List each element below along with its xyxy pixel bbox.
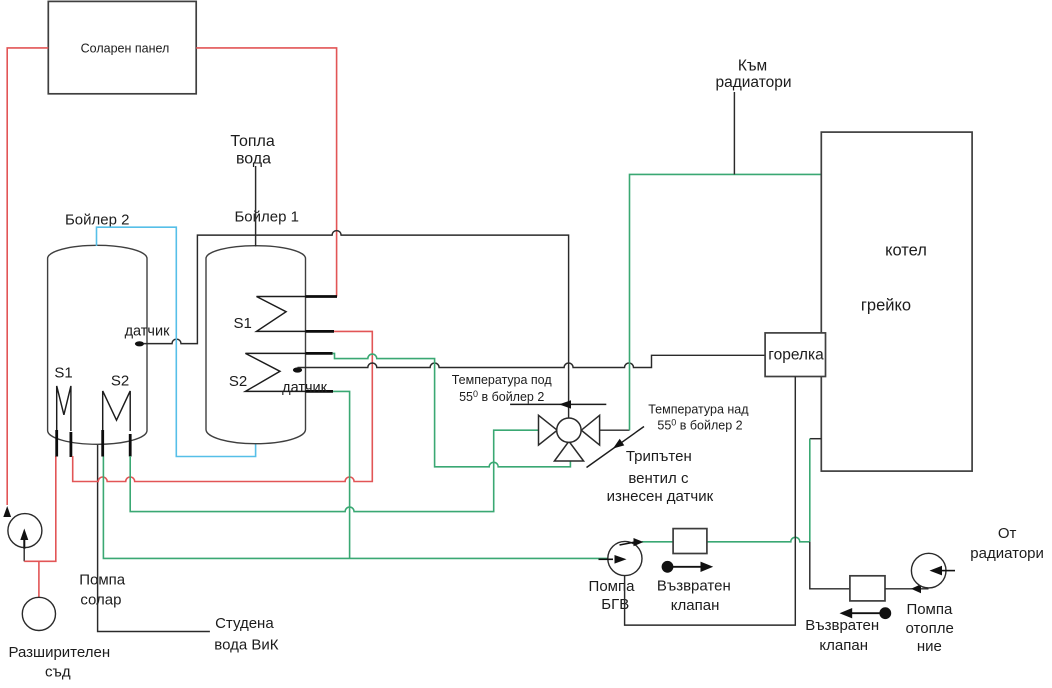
- pump BGV inlet arrow: [599, 558, 614, 560]
- stub boiler1 S1 bottom: [306, 330, 335, 333]
- check valve box 1: [673, 529, 707, 554]
- svg-text:S2: S2: [229, 373, 247, 390]
- stub boiler1 S2 bottom: [306, 390, 334, 393]
- svg-text:котел: котел: [885, 242, 927, 260]
- svg-text:Бойлер 1: Бойлер 1: [234, 209, 299, 226]
- wire red pump return (boiler2 S1 left pipe to pump): [24, 456, 56, 561]
- svg-text:Температура под: Температура под: [452, 373, 553, 387]
- svg-text:отопле: отопле: [906, 620, 954, 637]
- boiler2 coil S1: [57, 386, 71, 431]
- sensor dot boiler1: [293, 367, 302, 372]
- boiler (kotel) box: [821, 132, 972, 471]
- burner box горелка: [765, 333, 825, 377]
- three-way valve bottom triangle: [554, 441, 583, 461]
- pump BGV: [608, 541, 642, 575]
- wire green valve right to boiler (kotel): [630, 174, 822, 430]
- boiler2 coil S2: [103, 391, 131, 431]
- wire black sensor loop boiler2 to valve top: [144, 231, 569, 419]
- svg-text:датчик: датчик: [125, 324, 171, 340]
- pump heating Помпа отопление: [911, 553, 946, 588]
- boiler1 coil S1: [257, 297, 306, 332]
- svg-text:грейко: грейко: [861, 297, 911, 315]
- svg-text:S1: S1: [234, 315, 252, 332]
- svg-text:радиатори: радиатори: [715, 74, 791, 91]
- svg-text:Соларен панел: Соларен панел: [81, 42, 170, 56]
- wire cyan boiler2 top to boiler1 bottom: [97, 227, 256, 456]
- svg-text:ние: ние: [917, 638, 942, 655]
- boiler2 coil S1 pipe stubs: [57, 430, 71, 457]
- check valve box 2: [850, 576, 885, 601]
- svg-text:изнесен датчик: изнесен датчик: [607, 488, 714, 505]
- svg-text:Към: Към: [738, 58, 767, 75]
- three-way valve left triangle: [539, 415, 558, 445]
- wire green C boiler2 to pump BGV: [103, 457, 609, 559]
- svg-text:Бойлер 2: Бойлер 2: [65, 212, 130, 229]
- svg-text:Помпа: Помпа: [589, 578, 636, 595]
- pump solar P1: [8, 514, 42, 548]
- arrow temperature under: [510, 403, 606, 405]
- svg-text:датчик: датчик: [282, 380, 328, 396]
- svg-text:Възвратен: Възвратен: [805, 617, 879, 634]
- wire pump solar bottom: [23, 547, 25, 561]
- wire red boiler1 S1 bottom to boiler2: [73, 331, 373, 481]
- svg-text:Помпа: Помпа: [79, 572, 126, 589]
- arrow diagonal valve pointer: [587, 427, 645, 468]
- pump solar arrow: [23, 536, 25, 549]
- wire valve right port (dark): [600, 429, 630, 431]
- check valve 2 direction symbol: [879, 607, 891, 619]
- three-way valve right triangle: [581, 415, 599, 445]
- wire hot water out: [255, 166, 257, 247]
- boiler 2 tank: [48, 245, 147, 444]
- wire black kotel return to check valve 2: [810, 542, 850, 589]
- svg-text:Студена: Студена: [215, 615, 274, 632]
- svg-text:солар: солар: [80, 592, 121, 609]
- wire black sensor boiler1 to burner: [298, 355, 766, 367]
- svg-text:От: От: [998, 525, 1017, 542]
- wire to radiators: [733, 92, 735, 174]
- wire red solar supply (panel left to pump solar): [7, 48, 48, 505]
- stub kotel left: [810, 438, 822, 440]
- arrow up on solar supply: [3, 506, 11, 517]
- wire cold water: [98, 443, 210, 632]
- stub boiler1 S2 top: [306, 352, 333, 355]
- svg-text:вода: вода: [236, 151, 271, 168]
- svg-text:Възвратен: Възвратен: [657, 578, 731, 595]
- svg-text:клапан: клапан: [671, 597, 720, 614]
- wire green kotel return down: [809, 439, 811, 542]
- svg-text:клапан: клапан: [819, 637, 868, 654]
- pump heating inlet from radiators: [941, 570, 955, 572]
- svg-text:Помпа: Помпа: [906, 601, 953, 618]
- svg-text:550 в бойлер 2: 550 в бойлер 2: [657, 418, 742, 433]
- svg-text:550 в бойлер 2: 550 в бойлер 2: [459, 389, 544, 404]
- svg-text:радиатори: радиатори: [970, 545, 1044, 562]
- boiler1 coil S2: [245, 353, 305, 391]
- boiler 1 tank: [206, 246, 306, 444]
- wire red solar hot (panel right to boiler1 S1 top): [196, 48, 336, 297]
- svg-text:Температура над: Температура над: [648, 403, 749, 417]
- pump BGV outlet arrow: [620, 542, 636, 545]
- svg-text:Разширителен: Разширителен: [8, 644, 110, 661]
- svg-text:Топла: Топла: [230, 133, 274, 150]
- expansion vessel: [22, 597, 55, 630]
- wire check valve 2 to pump heating: [885, 588, 929, 590]
- wire green D boiler1 S2 bottom down: [333, 391, 350, 558]
- sensor dot boiler2: [135, 341, 144, 346]
- wire red expansion vessel branch: [38, 561, 40, 597]
- svg-text:горелка: горелка: [768, 347, 824, 364]
- svg-text:S2: S2: [111, 373, 129, 390]
- check valve 1 direction symbol: [662, 561, 674, 573]
- solar panel box: [48, 1, 196, 93]
- boiler2 coil S2 pipe stubs: [103, 430, 131, 457]
- wire green B valve left to boiler2: [130, 430, 538, 511]
- three-way valve circle: [557, 418, 581, 442]
- svg-text:вентил с: вентил с: [628, 470, 689, 487]
- wire black pump BGV return to burner: [625, 377, 796, 626]
- svg-text:S1: S1: [54, 365, 72, 382]
- wire green pump BGV outlet to kotel return: [642, 537, 810, 542]
- wire green A boiler1 S2 top to valve bottom: [333, 353, 571, 466]
- stub boiler1 S1 top: [306, 295, 338, 298]
- svg-text:вода ВиК: вода ВиК: [214, 637, 278, 654]
- svg-text:съд: съд: [45, 664, 71, 681]
- svg-text:Трипътен: Трипътен: [626, 448, 692, 465]
